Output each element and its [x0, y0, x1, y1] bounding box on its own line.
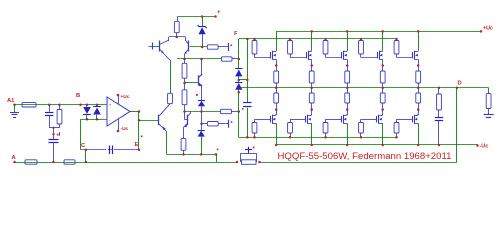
resistor R10 driver emitter — [181, 138, 186, 150]
resistor R4 — [64, 160, 75, 164]
resistor R5 top — [177, 17, 179, 22]
ground at A1 — [14, 105, 16, 112]
resistor RS9 lower source — [382, 88, 384, 93]
wire M3 drain — [347, 31, 349, 50]
transistor M10 lower MOSFET — [412, 116, 414, 122]
wire node line y59 — [177, 58, 222, 60]
terminal R6 — [228, 43, 230, 51]
capacitor C1 — [49, 105, 51, 112]
resistor RS3 upper source — [347, 66, 349, 72]
resistor R3 — [25, 160, 37, 164]
wire Q4 base lead — [184, 112, 186, 120]
svg-text:+Uc: +Uc — [121, 94, 130, 100]
node chain mid — [183, 82, 186, 85]
wire A1 line — [15, 104, 108, 106]
node VBE collector junction — [200, 58, 203, 61]
wire output bus — [240, 87, 489, 89]
node collector bar — [176, 36, 179, 39]
transistor M6 lower MOSFET — [270, 116, 272, 122]
op-amp negative supply pin — [118, 119, 120, 130]
resistor RG5 upper gate — [396, 39, 398, 41]
node plus terminal — [214, 15, 217, 18]
svg-text:-Uc: -Uc — [480, 144, 489, 150]
wire M3 source — [347, 60, 349, 65]
terminal -Uc — [476, 144, 479, 147]
resistor R7 — [222, 57, 233, 61]
resistor RG10 lower gate — [396, 119, 398, 122]
wire Q4 collector diag — [187, 113, 191, 116]
wire Q3 emitter down — [166, 132, 168, 155]
wire op-amp minus line — [81, 119, 108, 121]
node chain bottom — [183, 110, 186, 113]
transistor M1 upper MOSFET — [270, 52, 272, 58]
resistor RS4 upper source — [382, 66, 384, 72]
wire output to E node — [138, 112, 140, 150]
node on A1 line — [58, 104, 61, 107]
transistor Q1 — [159, 41, 161, 52]
zener D3 — [202, 17, 204, 27]
wire op-amp output — [130, 111, 139, 113]
resistor R14 on Q1 emitter column — [168, 93, 173, 103]
wire M9 drain down — [382, 123, 384, 145]
wire driver emitter bus — [167, 154, 216, 156]
wire M1 source — [276, 60, 278, 65]
transistor Q4 driver — [187, 115, 189, 126]
wire Q3 base lead — [139, 120, 159, 122]
wire M10 source up — [418, 110, 420, 116]
wire Q2 emitter down — [184, 54, 186, 59]
node upper gate bus junction 1 — [253, 38, 256, 41]
diode D1 — [86, 104, 89, 107]
node diode bottom — [238, 91, 241, 94]
resistor RG3 upper gate — [325, 39, 327, 41]
resistor RG6 lower gate — [254, 119, 256, 122]
resistor RS7 lower source — [311, 88, 313, 93]
wire M6 source up — [276, 110, 278, 116]
resistor R12 zobel — [438, 87, 441, 90]
node on A1 line — [48, 104, 51, 107]
transistor M8 lower MOSFET — [341, 116, 343, 122]
resistor R9 — [207, 122, 218, 126]
svg-text:+: + — [56, 132, 59, 138]
wire M8 drain down — [347, 123, 349, 145]
svg-text:+: + — [217, 10, 221, 16]
wire VBE emitter down — [201, 112, 203, 124]
resistor RS5 upper source — [418, 66, 420, 72]
transistor M5 upper MOSFET — [412, 52, 414, 58]
diode D7 — [198, 100, 205, 102]
wire bus riser to bottom line — [216, 154, 218, 162]
wire bottom return — [260, 162, 458, 164]
capacitor C4 bias — [243, 102, 252, 107]
resistor chain RA — [184, 59, 186, 63]
transistor Q2 — [188, 41, 190, 52]
transistor Q5 VBE multiplier — [198, 75, 200, 85]
svg-text:A: A — [12, 155, 17, 161]
svg-text:-: - — [109, 117, 111, 122]
svg-text:+Uc: +Uc — [483, 26, 493, 32]
wire Q4 emitter diag — [184, 124, 188, 128]
wire negative rail — [276, 144, 477, 146]
transistor M3 upper MOSFET — [341, 52, 343, 58]
wire M5 source — [418, 60, 420, 65]
transistor Q3 driver — [158, 115, 160, 126]
diode D6 — [235, 82, 242, 84]
wire positive supply top — [177, 16, 215, 18]
capacitor C5 zobel — [435, 117, 443, 119]
capacitor C3 feedback — [81, 149, 140, 151]
wire M4 source — [382, 60, 384, 65]
op-amp U1 — [107, 97, 130, 126]
svg-text:F: F — [234, 31, 238, 37]
wire Q2 base line — [190, 46, 208, 48]
wire VBE base lead — [185, 82, 198, 84]
node A1 input terminal — [13, 104, 16, 107]
resistor RS6 lower source — [276, 88, 278, 93]
wire M7 source up — [311, 110, 313, 116]
ground at load — [484, 114, 494, 116]
node upper gate bus junction 4 — [360, 38, 363, 41]
wire bias column right — [246, 38, 249, 41]
diode D4 — [201, 124, 203, 130]
wire M1 drain — [276, 31, 278, 50]
resistor RS10 lower source — [418, 88, 420, 93]
wire M7 drain down — [311, 123, 313, 145]
resistor RG9 lower gate — [360, 119, 362, 122]
node A input terminal — [13, 161, 16, 164]
resistor R8 — [221, 109, 232, 113]
wire M4 drain — [382, 31, 384, 50]
terminal Q1 base — [152, 46, 160, 48]
wire A line bottom — [15, 162, 238, 164]
wire collector bar — [169, 36, 186, 38]
wire Q1 emitter column — [170, 60, 172, 93]
svg-text:A1: A1 — [7, 98, 15, 104]
svg-text:-Uc: -Uc — [121, 126, 129, 132]
wire M5 drain — [418, 31, 420, 50]
node upper gate bus junction 3 — [324, 38, 327, 41]
svg-text:D: D — [458, 80, 462, 86]
op-amp positive supply pin — [118, 96, 120, 104]
node upper gate bus junction 5 — [395, 38, 398, 41]
node D output — [456, 87, 459, 90]
transistor M9 lower MOSFET — [376, 116, 378, 122]
svg-text:C: C — [81, 143, 86, 149]
node between diodes — [238, 79, 241, 82]
wire RC join — [49, 127, 59, 129]
wire M2 source — [311, 60, 313, 65]
svg-text:+: + — [109, 103, 112, 108]
terminal +Uc — [480, 30, 483, 33]
wire bias column left — [238, 39, 240, 59]
diode D2 — [96, 104, 99, 107]
wire Q3 emitter diag — [159, 124, 167, 132]
wire lower gate bus — [239, 137, 397, 139]
resistor R1 — [22, 103, 36, 107]
resistor RG7 lower gate — [290, 119, 292, 122]
terminal R9 — [228, 120, 230, 128]
node Q3 base junction — [138, 119, 141, 122]
wire diag to Q3 collector — [159, 104, 170, 116]
resistor RS1 upper source — [276, 66, 278, 72]
resistor R6 — [207, 45, 218, 49]
wire chain to VBE emitter line — [185, 111, 221, 113]
transistor M7 lower MOSFET — [305, 116, 307, 122]
wire M10 drain down — [418, 123, 420, 145]
node bias column junction — [238, 110, 241, 113]
transistor M4 upper MOSFET — [377, 52, 379, 58]
wire M2 drain — [311, 31, 313, 50]
resistor R2 — [59, 105, 61, 110]
resistor R13 load — [488, 88, 490, 94]
resistor RG4 upper gate — [360, 39, 362, 41]
node Q2 emitter junction — [183, 58, 186, 61]
svg-text:HQQF-55-506W, Federmann 1968+2: HQQF-55-506W, Federmann 1968+2011 — [278, 151, 452, 162]
wire M6 drain down — [276, 123, 278, 145]
fuse F1 with parallel capacitor — [236, 161, 239, 164]
transistor M2 upper MOSFET — [306, 52, 308, 58]
diode D5 — [235, 68, 242, 70]
svg-text:E: E — [135, 142, 139, 148]
capacitor C2 electrolytic — [53, 128, 55, 140]
wire M9 source up — [382, 110, 384, 116]
wire M8 source up — [347, 110, 349, 116]
node upper gate bus junction 2 — [289, 38, 292, 41]
resistor RS8 lower source — [347, 88, 349, 93]
wire bias branch — [239, 79, 248, 81]
resistor RG2 upper gate — [290, 39, 292, 41]
resistor RS2 upper source — [311, 66, 313, 72]
svg-text:B: B — [76, 93, 80, 99]
node on A line — [52, 161, 55, 164]
resistor RG8 lower gate — [325, 119, 327, 122]
wire upper gate bus — [239, 38, 397, 40]
resistor RG1 upper gate — [254, 39, 256, 41]
resistor chain RB — [182, 90, 187, 105]
node R9 junction — [200, 122, 203, 125]
wire top rail +Uc — [276, 31, 481, 33]
wire output riser down — [456, 88, 458, 162]
